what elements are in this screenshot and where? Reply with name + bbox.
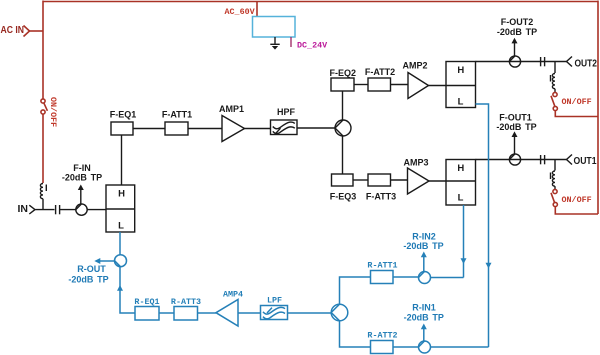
splitter SP1 bbox=[335, 120, 351, 136]
svg-text:ON/OFF: ON/OFF bbox=[562, 97, 592, 107]
test point R-IN1 coupler bbox=[404, 303, 444, 354]
test point R-OUT coupler bbox=[68, 255, 126, 285]
wire diplexer U3 L down with arrow bbox=[461, 205, 467, 278]
test point F-OUT1 coupler bbox=[496, 113, 536, 166]
switch S2 ON/OFF (OUT2) bbox=[551, 92, 592, 110]
attenuator R-ATT1 bbox=[367, 261, 397, 284]
wire HPF to splitter bbox=[297, 127, 335, 129]
wire SP2 down to R-ATT2 bbox=[340, 321, 371, 347]
svg-text:F-ATT3: F-ATT3 bbox=[366, 192, 396, 202]
svg-text:R-OUT: R-OUT bbox=[77, 264, 106, 274]
wire F-ATT1 to AMP1 bbox=[188, 128, 222, 130]
wire U3 H to OUT1 port bbox=[476, 159, 567, 161]
inductor L-IN bbox=[40, 184, 46, 210]
svg-text:-20dB TP: -20dB TP bbox=[404, 313, 444, 323]
amplifier AMP1 bbox=[219, 104, 245, 142]
node OUT1 port bbox=[567, 155, 597, 168]
attenuator F-ATT2 bbox=[365, 67, 395, 91]
wire OUT2 branch down bbox=[554, 62, 556, 74]
wire AC IN to bus bbox=[30, 30, 44, 32]
svg-text:F-EQ2: F-EQ2 bbox=[330, 68, 357, 78]
svg-text:F-EQ3: F-EQ3 bbox=[330, 192, 357, 202]
svg-text:F-OUT1: F-OUT1 bbox=[499, 113, 532, 123]
svg-text:-20dB TP: -20dB TP bbox=[497, 27, 537, 37]
svg-text:IN: IN bbox=[18, 204, 29, 215]
svg-text:H: H bbox=[118, 189, 125, 200]
splitter SP2 bbox=[331, 304, 348, 321]
svg-text:OUT2: OUT2 bbox=[575, 59, 598, 70]
capacitor C-IN bbox=[56, 205, 60, 214]
wire diplexer U2 L down with arrow bbox=[476, 104, 492, 347]
svg-text:R-ATT2: R-ATT2 bbox=[367, 331, 397, 341]
svg-text:L: L bbox=[458, 97, 464, 108]
svg-text:R-ATT1: R-ATT1 bbox=[367, 261, 397, 271]
filter LPF bbox=[261, 296, 288, 320]
svg-text:-20dB TP: -20dB TP bbox=[62, 173, 102, 183]
attenuator F-ATT1 bbox=[162, 110, 192, 136]
wire diplexer H up to F-EQ1 bbox=[121, 135, 123, 185]
svg-text:-20dB TP: -20dB TP bbox=[403, 241, 443, 251]
wire TP to diplexer bbox=[87, 209, 106, 211]
wire S2 to red bus bbox=[555, 111, 598, 117]
test point F-OUT2 coupler bbox=[497, 17, 537, 67]
svg-text:AC_60V: AC_60V bbox=[225, 7, 256, 17]
wire R-EQ1 to R-ATT3 bbox=[159, 312, 174, 314]
svg-text:AMP4: AMP4 bbox=[223, 290, 243, 300]
test point F-IN coupler bbox=[62, 163, 102, 215]
wire splitter up to F-EQ2 bbox=[342, 91, 344, 120]
wire U2 H to OUT2 port bbox=[476, 61, 567, 63]
wire R-OUT vertical with up arrow bbox=[117, 267, 135, 313]
svg-text:R-IN1: R-IN1 bbox=[412, 303, 436, 313]
wire R-ATT3 to AMP4 bbox=[198, 312, 217, 314]
wire AC_60V drop bbox=[256, 2, 258, 17]
wire diplexer U1 L down (cyan) bbox=[119, 232, 121, 255]
wire F-ATT3 to AMP3 bbox=[391, 179, 408, 181]
svg-text:-20dB TP: -20dB TP bbox=[496, 122, 536, 132]
wire red top bus bbox=[43, 1, 598, 3]
attenuator F-ATT3 bbox=[366, 174, 396, 202]
capacitor C-OUT1 bbox=[541, 155, 545, 164]
svg-text:DC_24V: DC_24V bbox=[297, 41, 328, 51]
svg-text:H: H bbox=[457, 163, 464, 174]
equalizer R-EQ1 bbox=[134, 297, 159, 320]
diplexer U2 H/L (OUT2) bbox=[446, 62, 476, 108]
capacitor C-OUT2 bbox=[541, 57, 545, 66]
filter HPF bbox=[271, 107, 298, 135]
wire capacitor to TP bbox=[60, 209, 76, 211]
svg-text:AMP1: AMP1 bbox=[219, 104, 244, 114]
wire F-EQ3 to F-ATT3 bbox=[353, 179, 368, 181]
switch S1 ON/OFF (left) bbox=[41, 97, 58, 127]
wire IN to capacitor bbox=[35, 209, 54, 211]
wire F-EQ1 to F-ATT1 bbox=[133, 128, 165, 130]
wire AMP2 to diplexer U2 bbox=[429, 85, 447, 87]
svg-text:R-ATT3: R-ATT3 bbox=[171, 297, 201, 307]
wire splitter down to F-EQ3 bbox=[342, 136, 344, 174]
svg-text:F-ATT2: F-ATT2 bbox=[365, 67, 395, 77]
wire LPF to splitter SP2 bbox=[288, 312, 332, 314]
wire SP2 up to R-ATT1 bbox=[340, 277, 371, 304]
svg-text:AMP2: AMP2 bbox=[402, 61, 427, 71]
inductor L-OUT1 bbox=[551, 171, 556, 189]
diplexer U3 H/L (OUT1) bbox=[446, 160, 476, 206]
svg-text:H: H bbox=[457, 65, 464, 76]
attenuator R-ATT2 bbox=[367, 331, 397, 354]
svg-text:AMP3: AMP3 bbox=[403, 158, 428, 168]
svg-text:HPF: HPF bbox=[277, 107, 296, 117]
wire red right bus bbox=[597, 1, 599, 215]
svg-text:ON/OFF: ON/OFF bbox=[562, 195, 592, 205]
switch S3 ON/OFF (OUT1) bbox=[551, 189, 592, 206]
wire S3 to red bus bbox=[555, 207, 598, 214]
svg-text:L: L bbox=[118, 221, 124, 232]
wire AMP4 to LPF bbox=[238, 312, 261, 314]
svg-text:L: L bbox=[458, 193, 464, 204]
amplifier AMP3 bbox=[403, 158, 429, 195]
node AC IN port bbox=[1, 25, 30, 37]
svg-text:LPF: LPF bbox=[267, 296, 282, 306]
wire red below switch bbox=[42, 114, 44, 183]
equalizer F-EQ3 bbox=[330, 174, 357, 202]
wire OUT1 branch down bbox=[554, 160, 556, 171]
equalizer F-EQ1 bbox=[110, 110, 137, 136]
power supply PSU box bbox=[253, 17, 296, 38]
svg-text:OUT1: OUT1 bbox=[574, 156, 597, 167]
wire F-EQ2 to F-ATT2 bbox=[354, 84, 368, 86]
wire R-ATT1 to R-IN2 TP bbox=[393, 276, 419, 278]
node DC_24V bbox=[291, 37, 328, 51]
svg-text:AC IN: AC IN bbox=[1, 25, 25, 36]
wire R-IN1 TP to U2 L drop bbox=[431, 346, 489, 348]
wire AMP3 to diplexer U3 bbox=[429, 180, 446, 182]
wire red left drop bbox=[42, 1, 44, 100]
svg-text:F-ATT1: F-ATT1 bbox=[162, 110, 192, 120]
svg-text:ON/OFF: ON/OFF bbox=[48, 97, 58, 127]
svg-text:F-IN: F-IN bbox=[73, 163, 91, 173]
node IN port bbox=[18, 204, 36, 215]
equalizer F-EQ2 bbox=[330, 68, 357, 91]
attenuator R-ATT3 bbox=[171, 297, 201, 320]
wire F-ATT2 to AMP2 bbox=[391, 84, 409, 86]
wire AMP1 to HPF bbox=[245, 128, 271, 130]
node OUT2 port bbox=[567, 57, 598, 70]
ground bbox=[270, 37, 279, 50]
svg-text:F-OUT2: F-OUT2 bbox=[501, 17, 534, 27]
svg-text:R-IN2: R-IN2 bbox=[412, 232, 436, 242]
wire R-IN2 TP to U3 L drop bbox=[431, 277, 464, 279]
diplexer U1 H/L (input) bbox=[106, 185, 135, 232]
svg-text:R-EQ1: R-EQ1 bbox=[134, 297, 159, 307]
amplifier AMP2 bbox=[402, 61, 428, 99]
svg-text:F-EQ1: F-EQ1 bbox=[110, 110, 137, 120]
wire R-ATT2 to R-IN1 TP bbox=[393, 346, 419, 348]
amplifier AMP4 bbox=[216, 290, 243, 327]
inductor L-OUT2 bbox=[551, 74, 556, 93]
svg-text:-20dB TP: -20dB TP bbox=[68, 275, 108, 285]
test point R-IN2 coupler bbox=[403, 232, 443, 284]
